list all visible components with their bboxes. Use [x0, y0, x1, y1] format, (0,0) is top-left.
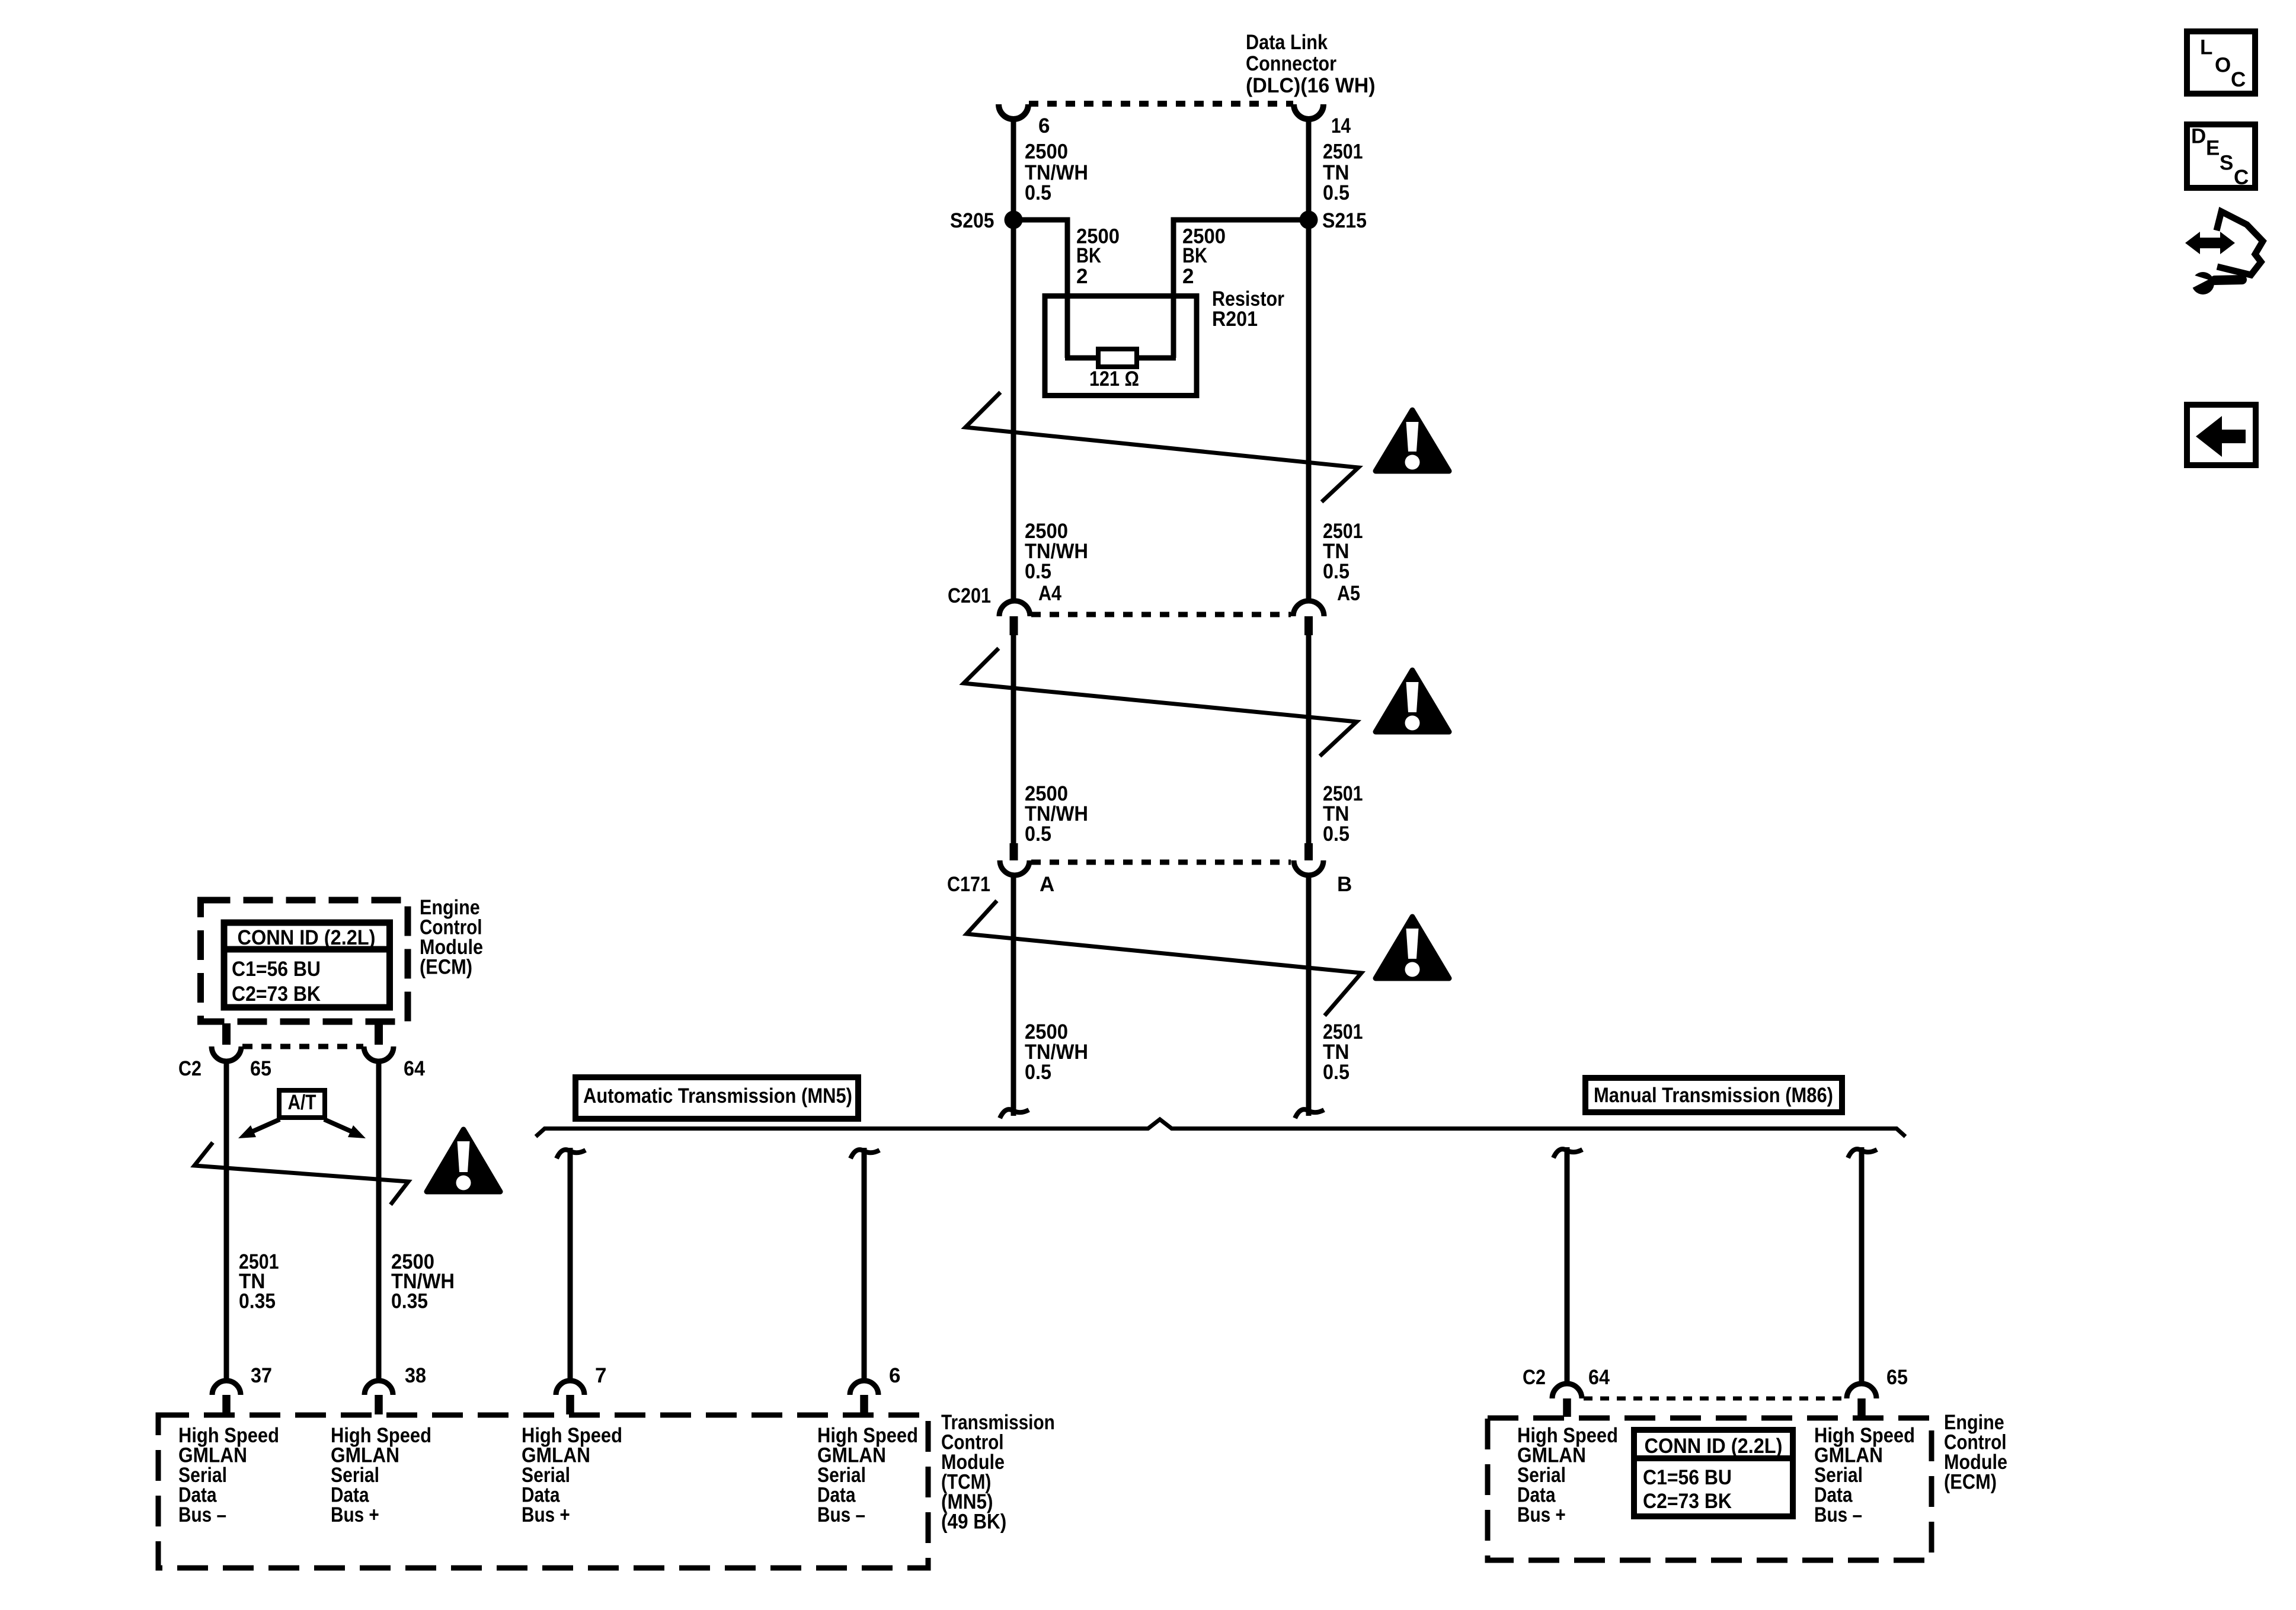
svg-text:BK: BK: [1076, 244, 1101, 267]
svg-text:(ECM): (ECM): [420, 956, 472, 979]
wire start hook ECM bus+: [1553, 1149, 1582, 1158]
svg-text:B: B: [1337, 873, 1352, 896]
connector C2 pin 65 stub: [222, 1023, 231, 1045]
resistor R201 box: [1045, 296, 1197, 396]
wire 2500 TN/WH to pin 38: [376, 1061, 382, 1381]
connector TCM pin 37 terminal: [212, 1381, 241, 1414]
A/T arrow left: [238, 1119, 280, 1138]
svg-text:64: 64: [1588, 1366, 1610, 1389]
svg-text:CONN ID (2.2L): CONN ID (2.2L): [1645, 1435, 1783, 1458]
svg-text:S215: S215: [1322, 209, 1367, 232]
icon DESC box: [2187, 124, 2255, 189]
connector C2 pin 64 terminal (right): [1552, 1384, 1582, 1417]
svg-text:0.5: 0.5: [1323, 822, 1350, 846]
svg-text:2: 2: [1182, 265, 1194, 288]
svg-text:Manual Transmission (M86): Manual Transmission (M86): [1594, 1084, 1833, 1107]
svg-text:C2: C2: [178, 1057, 202, 1080]
module TCM dashed box: [158, 1415, 928, 1568]
svg-text:121 Ω: 121 Ω: [1089, 367, 1139, 391]
svg-text:64: 64: [404, 1057, 425, 1080]
svg-text:38: 38: [405, 1364, 426, 1387]
svg-text:A5: A5: [1337, 582, 1360, 605]
wire S205 to resistor leg: [1013, 220, 1067, 356]
icon LOC box: [2187, 31, 2255, 94]
label box Manual Transmission (M86): [1585, 1078, 1842, 1112]
twisted pair marker (C201 to C171): [964, 648, 1357, 756]
node High Speed GMLAN Serial Data Bus + (pin 38): [331, 1424, 431, 1526]
resistor R201 element: [1065, 349, 1176, 367]
wire 2501 TN to pin 37: [224, 1061, 229, 1381]
svg-text:C171: C171: [947, 873, 990, 896]
svg-text:0.5: 0.5: [1323, 560, 1350, 583]
svg-text:0.5: 0.5: [1323, 181, 1350, 204]
wire label 2501 TN 0.5 (second): [1323, 520, 1363, 583]
svg-text:BK: BK: [1182, 244, 1207, 267]
svg-text:2500: 2500: [1025, 140, 1068, 164]
twisted pair marker (DLC to C201): [965, 392, 1358, 502]
A/T selector box: [279, 1090, 325, 1118]
connector C2 pin 64 terminal: [364, 1046, 394, 1061]
node label Data Link Connector (DLC)(16 WH): [1246, 31, 1376, 97]
label Engine Control Module (ECM) (right): [1944, 1411, 2007, 1494]
module ECM dashed box (right): [1488, 1418, 1932, 1560]
svg-text:0.5: 0.5: [1025, 1061, 1051, 1084]
warning triangle 4: [427, 1129, 500, 1192]
wire label 2501 TN 0.35: [239, 1250, 279, 1313]
svg-text:CONN ID (2.2L): CONN ID (2.2L): [238, 926, 376, 949]
wire label 2501 TN 0.5 (third): [1323, 782, 1363, 846]
connector C2 dashed line (left): [242, 1044, 363, 1049]
icon back arrow box: [2187, 405, 2256, 465]
connector C171 dashed line: [1031, 860, 1291, 865]
wire 2500 TN/WH left bus middle: [1011, 635, 1016, 844]
svg-text:Automatic Transmission (MN5): Automatic Transmission (MN5): [583, 1084, 852, 1108]
wire end hook left bus: [1000, 1109, 1029, 1118]
svg-text:(49 BK): (49 BK): [941, 1510, 1006, 1534]
svg-text:C: C: [2234, 166, 2249, 189]
twisted pair marker (below C171): [967, 901, 1361, 1016]
wire label 2500 TN/WH 0.5 (third): [1025, 782, 1088, 846]
warning triangle 2: [1376, 670, 1449, 732]
svg-text:65: 65: [250, 1057, 271, 1080]
svg-text:(ECM): (ECM): [1944, 1471, 1997, 1494]
svg-text:Bus +: Bus +: [331, 1503, 379, 1526]
svg-text:L: L: [2200, 36, 2212, 59]
svg-text:2501: 2501: [1323, 140, 1363, 164]
connector TCM pin 6 terminal: [850, 1381, 878, 1414]
node High Speed GMLAN Serial Data Bus + (pin 7): [522, 1424, 622, 1526]
svg-text:Bus +: Bus +: [522, 1503, 570, 1526]
label Resistor R201: [1212, 287, 1284, 331]
wire label 2500 BK 2 (right leg): [1182, 225, 1226, 289]
warning triangle 3: [1376, 917, 1449, 978]
CONN ID box (right): [1634, 1430, 1793, 1516]
wire label 2500 TN/WH 0.35: [391, 1250, 455, 1313]
connector C171 pin A terminal: [1000, 843, 1029, 875]
label Engine Control Module (ECM) (left): [420, 896, 483, 979]
connector C201 pin A5 terminal: [1293, 601, 1324, 635]
svg-text:(DLC)(16 WH): (DLC)(16 WH): [1246, 74, 1376, 97]
svg-text:6: 6: [889, 1364, 900, 1387]
node High Speed GMLAN Serial Data Bus + (pin 64): [1517, 1424, 1618, 1526]
svg-text:Connector: Connector: [1246, 52, 1336, 75]
wire start hook TCM bus+: [557, 1150, 586, 1158]
wire ECM bus- (pin 65): [1859, 1147, 1865, 1384]
svg-text:Bus –: Bus –: [178, 1503, 226, 1526]
svg-text:2: 2: [1076, 265, 1088, 288]
wire label 2500 BK 2 (left leg): [1076, 225, 1120, 289]
wire label 2500 TN/WH 0.5 (second): [1025, 520, 1088, 583]
svg-text:Data Link: Data Link: [1246, 31, 1328, 54]
splice S205: [1005, 211, 1023, 229]
connector TCM pin 7 terminal: [556, 1381, 584, 1414]
svg-text:C1=56 BU: C1=56 BU: [1643, 1466, 1732, 1489]
connector C171 pin B terminal: [1294, 843, 1323, 875]
wire S215 to resistor leg: [1173, 220, 1309, 356]
connector DLC pin 6 terminal: [999, 104, 1028, 119]
wire start hook TCM bus-: [850, 1150, 880, 1158]
wire start hook ECM bus-: [1848, 1149, 1877, 1158]
connector C2 pin 65 terminal: [212, 1046, 241, 1061]
module ECM dashed box (left): [201, 900, 408, 1022]
svg-text:A4: A4: [1038, 582, 1061, 605]
A/T arrow right: [324, 1119, 366, 1138]
wire TCM bus+ (pin 7): [568, 1148, 573, 1381]
wire 2500 TN/WH left bus lower: [1011, 875, 1016, 1116]
svg-text:S: S: [2220, 152, 2233, 175]
svg-text:0.5: 0.5: [1025, 560, 1051, 583]
svg-text:0.35: 0.35: [391, 1290, 428, 1313]
svg-text:E: E: [2206, 137, 2220, 160]
svg-text:Bus –: Bus –: [1814, 1503, 1862, 1526]
warning triangle 1: [1376, 410, 1449, 471]
svg-text:65: 65: [1886, 1366, 1908, 1389]
svg-text:O: O: [2215, 54, 2231, 77]
connector C201 dashed line: [1031, 612, 1291, 617]
svg-text:Bus –: Bus –: [817, 1503, 865, 1526]
svg-text:14: 14: [1331, 114, 1351, 137]
wire 2500 TN/WH left bus upper: [1011, 119, 1016, 603]
svg-text:37: 37: [251, 1364, 272, 1387]
wire label 2500 TN/WH 0.5 (top): [1025, 140, 1088, 205]
connector DLC dashed line: [1029, 101, 1293, 107]
svg-text:Bus +: Bus +: [1517, 1503, 1566, 1526]
wire 2501 TN right bus middle: [1306, 635, 1312, 844]
twisted pair marker (ECM wires): [194, 1142, 408, 1205]
connector DLC pin 14 terminal: [1294, 104, 1323, 119]
wire 2501 TN right bus upper: [1306, 119, 1312, 603]
wire label 2501 TN 0.5 (top): [1323, 140, 1363, 205]
node High Speed GMLAN Serial Data Bus - (pin 37): [178, 1424, 279, 1526]
icon connector repair (arrow, plug outline, wrench): [2185, 212, 2263, 295]
node High Speed GMLAN Serial Data Bus - (pin 65): [1814, 1424, 1915, 1526]
wire ECM bus+ (pin 64): [1565, 1147, 1570, 1384]
wire label 2500 TN/WH 0.5 (fourth): [1025, 1020, 1088, 1084]
connector C2 dashed line (right): [1584, 1397, 1846, 1401]
svg-text:C2=73 BK: C2=73 BK: [1643, 1490, 1732, 1513]
svg-text:C2=73 BK: C2=73 BK: [232, 982, 321, 1006]
svg-text:7: 7: [595, 1364, 606, 1387]
svg-text:R201: R201: [1212, 308, 1258, 331]
wire label 2501 TN 0.5 (fourth): [1323, 1020, 1363, 1084]
wire TCM bus- (pin 6): [862, 1148, 867, 1381]
svg-text:S205: S205: [950, 209, 994, 232]
connector C2 pin 65 terminal (right): [1847, 1384, 1876, 1417]
svg-text:0.5: 0.5: [1025, 181, 1051, 204]
connector C2 pin 64 stub: [375, 1023, 383, 1045]
svg-text:C2: C2: [1523, 1366, 1546, 1389]
connector C201 pin A4 terminal: [999, 601, 1030, 635]
svg-text:0.5: 0.5: [1025, 822, 1051, 846]
svg-text:0.5: 0.5: [1323, 1061, 1350, 1084]
svg-text:D: D: [2191, 125, 2206, 148]
node High Speed GMLAN Serial Data Bus - (pin 6): [817, 1424, 918, 1526]
svg-text:A/T: A/T: [288, 1091, 316, 1114]
connector TCM pin 38 terminal: [364, 1381, 393, 1414]
wire 2501 TN right bus lower: [1306, 875, 1312, 1116]
splice S215: [1300, 211, 1318, 229]
CONN ID box (left): [224, 923, 390, 1007]
label Transmission Control Module (TCM) (MN5) (49 BK): [941, 1411, 1055, 1534]
svg-text:C: C: [2231, 68, 2246, 91]
svg-text:A: A: [1040, 873, 1054, 896]
svg-text:6: 6: [1038, 114, 1050, 137]
alternative brace line: [536, 1119, 1905, 1137]
svg-text:C201: C201: [948, 584, 991, 607]
svg-text:0.35: 0.35: [239, 1290, 276, 1313]
label box Automatic Transmission (MN5): [575, 1077, 858, 1119]
wire end hook right bus: [1295, 1109, 1324, 1118]
svg-text:C1=56 BU: C1=56 BU: [232, 958, 321, 981]
